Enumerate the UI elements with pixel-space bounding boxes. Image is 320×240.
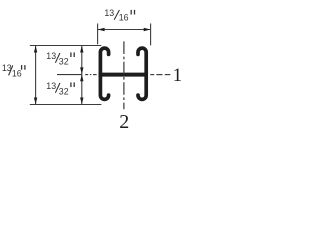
inner top dimension top arrowhead bbox=[80, 46, 83, 53]
left dimension: bottom extension line bbox=[30, 104, 102, 106]
svg-text:1: 1 bbox=[173, 65, 183, 86]
vertical centerline dash-dot bbox=[123, 41, 125, 109]
top 13/32" label bbox=[46, 51, 74, 67]
svg-text:32: 32 bbox=[59, 56, 69, 66]
horizontal centerline right dash-dot bbox=[150, 74, 154, 76]
svg-text:13: 13 bbox=[46, 51, 56, 61]
left dimension label 13/16" bbox=[2, 63, 25, 79]
horizontal centerline left solid segment between 13/32 labels bbox=[57, 74, 82, 76]
horizontal centerline left dash-dot bbox=[85, 74, 88, 76]
inner bottom dimension bottom arrowhead bbox=[80, 98, 83, 105]
svg-text:13: 13 bbox=[104, 8, 114, 18]
profile right wall with top and bottom hooks bbox=[138, 48, 146, 99]
profile left wall with top and bottom hooks bbox=[100, 48, 108, 99]
top dimension right arrowhead bbox=[144, 28, 151, 31]
left outer dimension line 13/16 bbox=[35, 46, 37, 104]
bottom 13/32" label bbox=[46, 81, 74, 97]
top dimension: left extension line bbox=[97, 24, 99, 45]
inner bottom dimension top arrowhead bbox=[80, 75, 83, 82]
left outer bottom arrowhead bbox=[34, 98, 37, 105]
inner dimension line: top 13/32 bbox=[81, 46, 83, 74]
top dimension line bbox=[98, 29, 150, 31]
svg-text:16: 16 bbox=[12, 69, 22, 79]
top dimension: right extension line bbox=[150, 24, 152, 46]
top dimension left arrowhead bbox=[98, 28, 105, 31]
inner dimension line: bottom 13/32 bbox=[81, 75, 83, 105]
left outer top arrowhead bbox=[34, 46, 37, 53]
svg-text:16: 16 bbox=[119, 12, 129, 22]
svg-text:13: 13 bbox=[46, 81, 56, 91]
top dimension label 13/16" bbox=[104, 8, 134, 22]
left dimension: top extension line bbox=[30, 45, 102, 47]
svg-text:2: 2 bbox=[119, 111, 129, 133]
inner top dimension bottom arrowhead bbox=[80, 67, 83, 74]
svg-text:32: 32 bbox=[59, 86, 69, 96]
profile center web bbox=[99, 73, 148, 77]
